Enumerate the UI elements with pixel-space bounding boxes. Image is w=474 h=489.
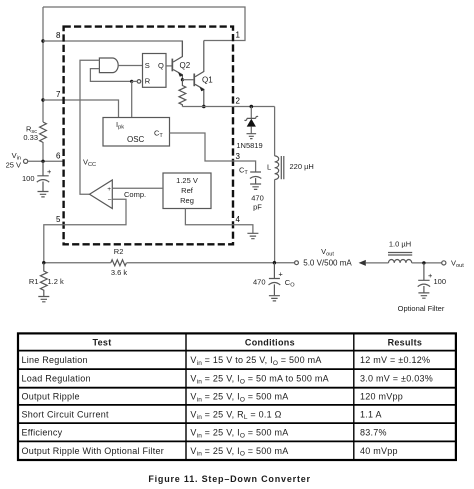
table header separator xyxy=(18,350,456,352)
svg-text:+: + xyxy=(428,271,433,280)
resistor R1 xyxy=(40,263,47,297)
svg-text:120 mVpp: 120 mVpp xyxy=(360,392,403,402)
svg-text:Reg: Reg xyxy=(180,196,194,205)
wire R junction to bubble xyxy=(132,80,138,82)
terminal Vout right xyxy=(442,261,446,265)
capacitor 100uF output xyxy=(418,263,429,293)
diode D1 1N5819 xyxy=(250,107,252,119)
node diode junction xyxy=(250,105,254,109)
svg-text:5: 5 xyxy=(56,215,61,224)
svg-text:Ref: Ref xyxy=(181,186,194,195)
capacitor Co xyxy=(269,263,280,296)
svg-text:Vin = 25 V, IO = 500 mA: Vin = 25 V, IO = 500 mA xyxy=(190,428,288,440)
svg-text:Vin = 25 V, IO = 500 mA: Vin = 25 V, IO = 500 mA xyxy=(190,446,288,458)
wire Q1 base xyxy=(182,79,193,81)
svg-text:1N5819: 1N5819 xyxy=(236,141,262,150)
node switch emitter pin 2 junction xyxy=(202,105,206,109)
svg-text:7: 7 xyxy=(56,90,61,99)
svg-text:1.25 V: 1.25 V xyxy=(176,176,198,185)
svg-text:220 µH: 220 µH xyxy=(290,162,314,171)
svg-text:CT: CT xyxy=(154,129,163,140)
table outer border xyxy=(18,333,456,460)
wire and gate top input from comparator xyxy=(80,60,99,194)
svg-text:Ipk: Ipk xyxy=(116,120,124,131)
block Ref Reg xyxy=(163,173,211,209)
node Vin junction xyxy=(41,160,44,163)
svg-text:Test: Test xyxy=(92,337,111,347)
latch U2 xyxy=(143,54,167,88)
svg-text:3.0 mV = ±0.03%: 3.0 mV = ±0.03% xyxy=(360,374,433,384)
svg-text:+: + xyxy=(107,186,111,193)
svg-text:Figure 11. Step–Down Converter: Figure 11. Step–Down Converter xyxy=(148,474,311,484)
wire pin 7 to OSC Ipk xyxy=(43,100,119,118)
svg-text:6: 6 xyxy=(56,151,61,160)
node pin 8 junction xyxy=(41,39,44,42)
ground input cap xyxy=(38,192,49,197)
resistor Q1 base-emitter xyxy=(179,80,186,107)
svg-text:40 mVpp: 40 mVpp xyxy=(360,446,398,456)
wire and output to latch S xyxy=(118,65,142,67)
capacitor CT xyxy=(250,172,261,184)
svg-text:pF: pF xyxy=(253,203,262,212)
svg-text:Vout: Vout xyxy=(451,259,464,270)
wire pin 2 rail xyxy=(182,106,274,108)
wire top rail to pin 1 xyxy=(43,7,245,41)
svg-text:−: − xyxy=(108,197,112,204)
svg-text:Q2: Q2 xyxy=(180,61,191,70)
transistor Q2 xyxy=(172,59,174,72)
svg-text:S: S xyxy=(145,61,150,70)
svg-text:1.1 A: 1.1 A xyxy=(360,409,382,419)
svg-text:4: 4 xyxy=(236,215,241,224)
latch R input bubble xyxy=(137,80,141,84)
node feedback junction xyxy=(42,261,45,264)
node filter junction xyxy=(422,261,425,264)
table row separators xyxy=(18,369,456,441)
svg-text:Vin = 25 V, IO = 500 mA: Vin = 25 V, IO = 500 mA xyxy=(190,392,288,404)
svg-text:Optional Filter: Optional Filter xyxy=(398,304,445,313)
wire CT to pin 3 xyxy=(170,133,256,172)
node pin 7 junction xyxy=(41,98,44,101)
block OSC xyxy=(103,118,170,147)
svg-text:100: 100 xyxy=(22,174,35,183)
wire R junction down to OSC xyxy=(131,81,133,117)
svg-text:83.7%: 83.7% xyxy=(360,428,387,438)
table column dividers xyxy=(186,333,354,460)
resistor R2 xyxy=(111,260,127,266)
svg-text:2: 2 xyxy=(236,97,241,106)
svg-text:L: L xyxy=(267,162,271,171)
svg-text:Vin = 25 V, IO = 50 mA to 500: Vin = 25 V, IO = 50 mA to 500 mA xyxy=(190,374,328,386)
ground pin 4 xyxy=(247,233,258,238)
svg-text:Output Ripple: Output Ripple xyxy=(22,392,80,402)
svg-text:+: + xyxy=(278,270,283,279)
ground output cap xyxy=(418,293,429,298)
svg-text:R: R xyxy=(145,77,151,86)
wire ref reg to comparator plus xyxy=(112,187,163,189)
svg-text:Output Ripple With Optional Fi: Output Ripple With Optional Filter xyxy=(22,446,165,456)
svg-text:CO: CO xyxy=(285,278,295,289)
svg-text:CT: CT xyxy=(239,166,248,177)
wire left input rail xyxy=(42,7,44,161)
node R junction xyxy=(130,80,133,83)
terminal Vin xyxy=(24,159,28,163)
and-gate U1 xyxy=(99,58,118,73)
svg-text:3: 3 xyxy=(236,152,241,161)
resistor Rsc xyxy=(40,122,47,142)
svg-text:100: 100 xyxy=(434,277,447,286)
svg-text:12 mV = ±0.12%: 12 mV = ±0.12% xyxy=(360,355,430,365)
svg-text:3.6 k: 3.6 k xyxy=(111,268,128,277)
wire ref reg ground to pin 4 xyxy=(185,209,253,234)
svg-text:1.2 k: 1.2 k xyxy=(48,277,65,286)
svg-text:1: 1 xyxy=(236,31,241,40)
ground Co xyxy=(269,296,280,301)
svg-text:Conditions: Conditions xyxy=(245,337,295,347)
svg-text:Short Circuit Current: Short Circuit Current xyxy=(22,409,110,419)
svg-text:Q1: Q1 xyxy=(202,75,213,84)
svg-text:470: 470 xyxy=(251,194,264,203)
wire and gate bottom input xyxy=(90,69,131,82)
svg-text:Load Regulation: Load Regulation xyxy=(22,374,91,384)
svg-text:VCC: VCC xyxy=(83,158,96,169)
transistor Q1 xyxy=(193,74,195,87)
wire comparator minus to pin 5 xyxy=(44,199,126,262)
svg-text:Efficiency: Efficiency xyxy=(22,428,63,438)
wire filter output xyxy=(412,262,442,264)
svg-text:OSC: OSC xyxy=(127,135,145,144)
node Q2 emitter junction xyxy=(181,78,184,81)
svg-text:25 V: 25 V xyxy=(6,161,21,170)
svg-text:1.0 µH: 1.0 µH xyxy=(389,240,411,249)
svg-text:Vin = 25 V, RL = 0.1 Ω: Vin = 25 V, RL = 0.1 Ω xyxy=(190,409,281,421)
svg-text:Q: Q xyxy=(158,61,164,70)
ground R1 xyxy=(38,297,49,302)
terminal Vout left xyxy=(295,261,299,265)
IC dashed border xyxy=(64,27,233,245)
svg-text:Vout: Vout xyxy=(321,247,334,258)
wire Vin to pin 6 xyxy=(28,160,64,162)
svg-text:Vin = 15 V to 25 V, IO = 500 m: Vin = 15 V to 25 V, IO = 500 mA xyxy=(190,355,321,367)
svg-text:5.0 V/500 mA: 5.0 V/500 mA xyxy=(303,258,352,267)
svg-text:R2: R2 xyxy=(114,247,124,256)
svg-text:470: 470 xyxy=(253,278,266,287)
comparator xyxy=(90,180,113,209)
wire latch Q to Q2 base xyxy=(166,65,172,67)
svg-text:8: 8 xyxy=(56,31,61,40)
svg-text:+: + xyxy=(47,167,52,176)
svg-text:Results: Results xyxy=(388,337,423,347)
capacitor 100uF input xyxy=(37,161,48,191)
svg-text:0.33: 0.33 xyxy=(23,133,38,142)
svg-text:Comp.: Comp. xyxy=(124,190,146,199)
inductor filter 1.0uH xyxy=(389,260,412,263)
svg-text:Line Regulation: Line Regulation xyxy=(22,355,88,365)
wire pin 8 to Q2 collector xyxy=(43,41,182,56)
ground CT cap xyxy=(250,184,261,189)
inductor L 220uH xyxy=(274,107,276,263)
arrow to optional filter xyxy=(359,260,366,266)
ground diode xyxy=(247,134,257,139)
node output junction xyxy=(273,261,276,264)
svg-text:R1: R1 xyxy=(29,277,39,286)
wire output rail xyxy=(44,262,295,264)
